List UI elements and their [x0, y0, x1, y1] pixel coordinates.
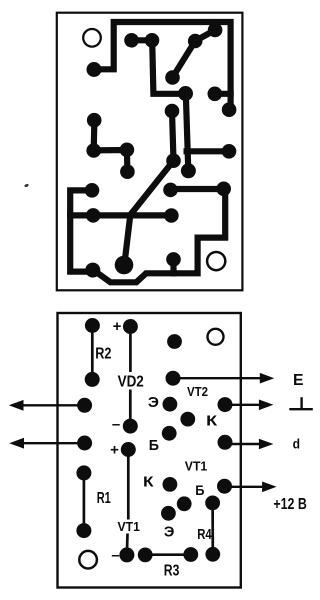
arrowhead left 2 — [9, 438, 24, 449]
pad P6 — [208, 23, 223, 38]
svg-text:+12 В: +12 В — [273, 496, 307, 513]
pad P16 — [181, 163, 196, 178]
svg-text:Э: Э — [148, 394, 159, 411]
pad P19 — [163, 183, 178, 198]
pad P22 — [164, 208, 179, 223]
wire ground contour: pad18 left, down left side, notch, right, up, to pad20, left to pad19 — [70, 189, 225, 282]
wire net4: pad11-pad12-pad13-pad14 — [94, 120, 128, 172]
mounting hole bottom-left — [79, 551, 97, 569]
pad B11 — [218, 397, 233, 412]
pad B15 — [76, 465, 91, 480]
pad P18 — [85, 183, 100, 198]
arrowhead ground — [259, 400, 274, 411]
wire diagonal net3: pad4-pad5-pad6 — [173, 30, 216, 78]
capacitor/electrolytic VT1-column line (gap at label) — [127, 450, 128, 555]
ground symbol — [289, 397, 313, 409]
pad P21 — [86, 208, 101, 223]
pad B17 — [163, 477, 178, 492]
svg-text:Б: Б — [195, 482, 204, 498]
wire stub pad25 down to bottom trace — [170, 259, 176, 273]
pad B25 — [183, 547, 198, 562]
svg-text:К: К — [206, 413, 218, 430]
pad B19 — [177, 496, 192, 511]
mounting hole top-left — [83, 29, 101, 47]
svg-text:VT1: VT1 — [118, 520, 140, 534]
svg-text:d: d — [293, 436, 300, 452]
svg-text:VD2: VD2 — [118, 373, 144, 390]
pad B22 — [205, 547, 220, 562]
wire lead to left arrow 1 — [21, 404, 85, 406]
svg-text:R3: R3 — [164, 563, 180, 580]
mounting hole top-right — [208, 329, 224, 345]
scan speck — [24, 183, 29, 187]
pad P9 — [222, 102, 237, 117]
pad B4 — [123, 419, 138, 434]
board outline (bottom board) — [58, 313, 241, 588]
svg-text:+: + — [110, 442, 119, 459]
wire net5: pad10 down to pad15, diagonal to junction, down to big pad — [124, 111, 173, 265]
pad B6 — [77, 436, 92, 451]
diode VD2 body line (gap at label) — [129, 327, 132, 427]
resistor R1 body line — [83, 473, 86, 531]
pad B7 — [121, 442, 136, 457]
pad P3 — [145, 33, 160, 48]
pad P4 — [165, 70, 180, 85]
pad B23 — [119, 547, 134, 562]
wire net6: long horizontal to pad22 — [70, 212, 171, 218]
svg-text:R2: R2 — [95, 345, 111, 362]
svg-text:–: – — [111, 547, 119, 564]
pad P17 — [222, 144, 237, 159]
pad B9 — [166, 371, 181, 386]
pad B20 — [161, 506, 176, 521]
pad P10 — [165, 104, 180, 119]
pad P25 — [166, 252, 181, 267]
pad P23 — [85, 263, 100, 278]
pad B24 — [138, 548, 153, 563]
resistor R4 body line — [211, 503, 214, 554]
arrowhead E — [260, 373, 275, 384]
pad B1 — [85, 318, 100, 333]
mounting hole bottom-right — [207, 252, 225, 270]
pad B14 — [218, 435, 233, 450]
wire lead to +12V arrow — [225, 486, 265, 488]
pad B21 — [205, 496, 220, 511]
svg-text:–: – — [112, 416, 120, 433]
pad P13 — [120, 143, 135, 158]
wire lead to d arrow — [225, 443, 261, 445]
pad B3 — [123, 319, 138, 334]
pad P1 — [87, 62, 102, 77]
arrowhead left 1 — [9, 400, 24, 411]
pad B13 — [162, 426, 177, 441]
pad P11 — [87, 113, 102, 128]
wire lead to E arrow — [173, 377, 262, 379]
svg-text:+: + — [113, 318, 122, 335]
pad P15 — [166, 153, 181, 168]
pad P7 — [178, 86, 193, 101]
board outline (top board) — [57, 13, 243, 291]
pad B12 — [180, 412, 195, 427]
pad B10 — [163, 397, 178, 412]
pad P12 — [86, 143, 101, 158]
pad P14 — [120, 164, 135, 179]
svg-text:VT2: VT2 — [187, 385, 208, 399]
wire lead to ground arrow — [225, 404, 261, 406]
arrowhead +12V — [262, 482, 277, 493]
arrowhead d — [259, 439, 274, 450]
wire lead to left arrow 2 — [21, 442, 85, 444]
resistor R2 body line — [91, 326, 94, 380]
pad P8 — [208, 87, 223, 102]
pad B18 — [217, 479, 232, 494]
svg-text:E: E — [293, 372, 304, 389]
svg-text:Б: Б — [149, 437, 159, 454]
wire mid vertical pad7-pad16 with branch to pad17 — [186, 94, 229, 171]
svg-text:R1: R1 — [97, 490, 111, 507]
wire net1: pad1 right, up, along top, down right side — [94, 22, 231, 110]
pad B5 — [77, 398, 92, 413]
svg-text:Э: Э — [164, 525, 175, 541]
wire stub pad8 to right vertical — [215, 91, 231, 97]
wire net2: pad2-pad3, down, right to pad7 — [132, 40, 186, 94]
resistor R3 body line — [145, 553, 191, 556]
pad P5 — [188, 34, 203, 49]
svg-text:R4: R4 — [197, 526, 212, 543]
pad B16 — [76, 523, 91, 538]
pad B8 — [167, 334, 182, 349]
pad P2 — [124, 33, 139, 48]
svg-text:К: К — [143, 474, 154, 491]
svg-text:VT1: VT1 — [185, 458, 207, 473]
pad B2 — [85, 372, 100, 387]
pad P24 (large) — [115, 256, 134, 275]
pad P20 — [216, 182, 231, 197]
